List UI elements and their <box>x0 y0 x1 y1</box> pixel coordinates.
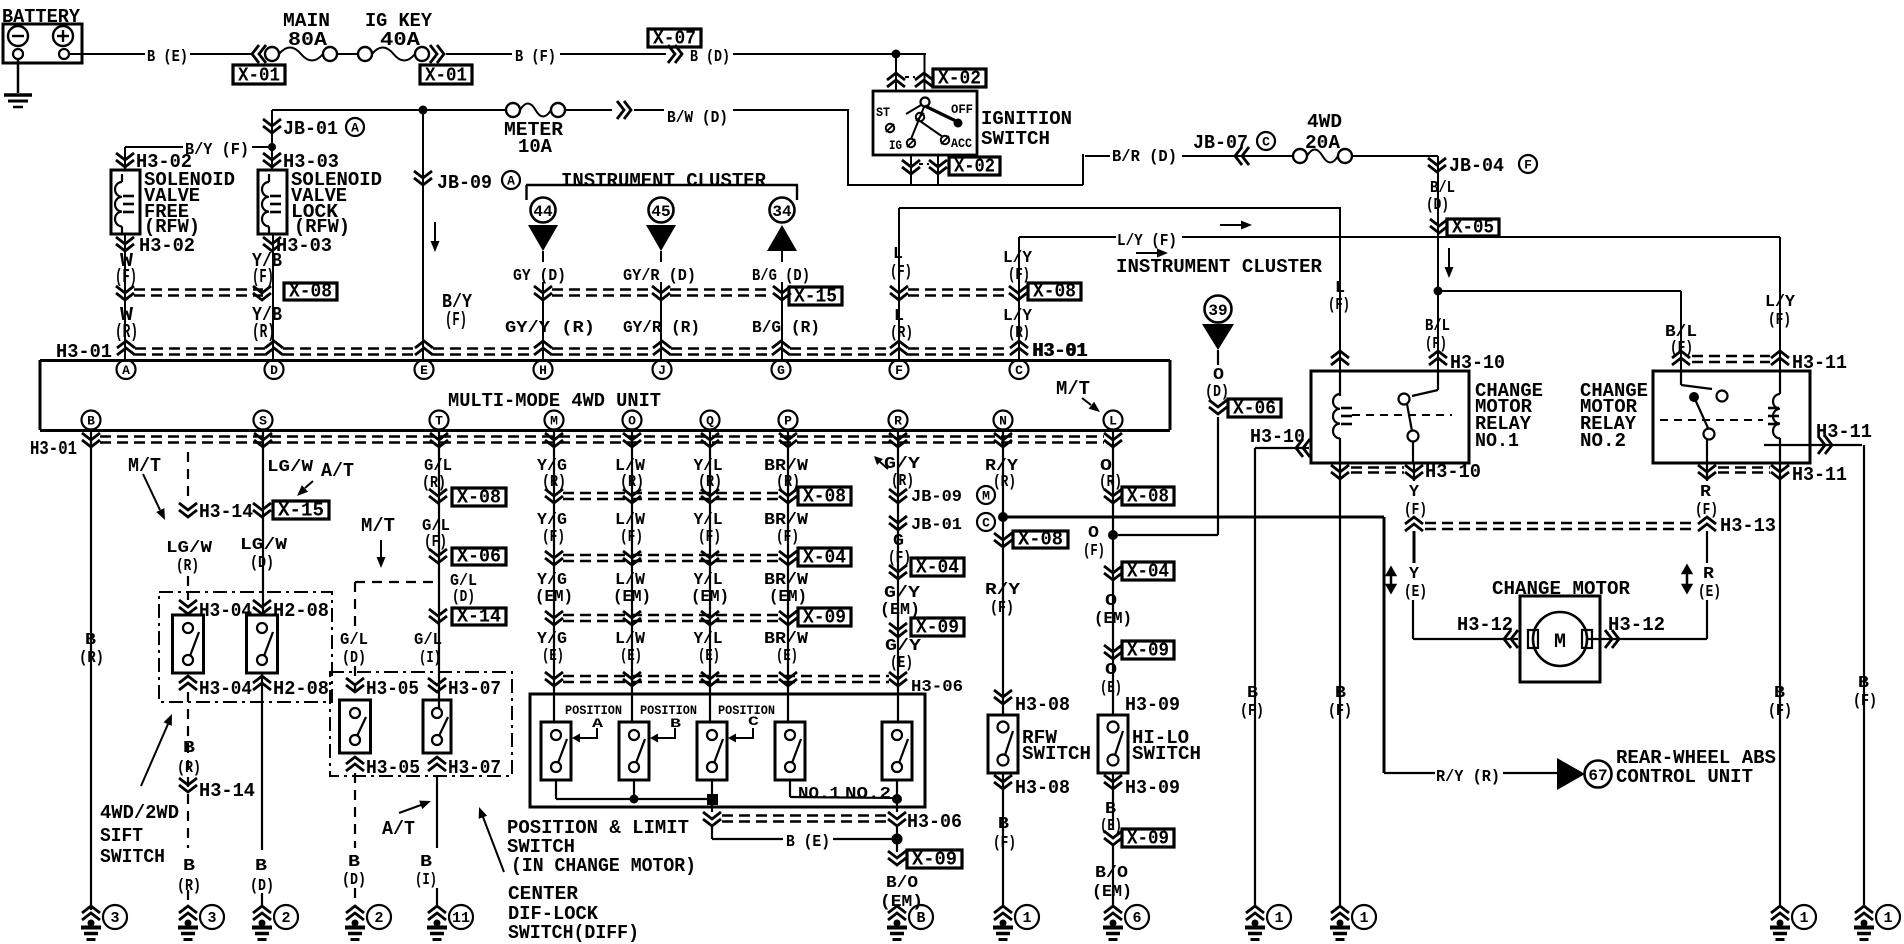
svg-text:B/O: B/O <box>1095 863 1128 882</box>
svg-text:X-08: X-08 <box>289 281 332 303</box>
svg-text:P: P <box>784 414 792 429</box>
svg-text:A/T: A/T <box>321 460 354 482</box>
svg-text:H3-05: H3-05 <box>366 678 419 700</box>
svg-text:J: J <box>658 363 666 378</box>
svg-text:(R): (R) <box>79 648 104 667</box>
svg-text:H3-08: H3-08 <box>1015 777 1070 799</box>
svg-text:H3-04: H3-04 <box>199 600 252 622</box>
svg-text:(R): (R) <box>177 758 201 777</box>
svg-text:C: C <box>982 516 990 531</box>
svg-text:(F): (F) <box>888 548 911 567</box>
svg-text:M: M <box>982 489 990 504</box>
svg-text:(R): (R) <box>698 472 722 491</box>
svg-text:B: B <box>183 738 195 757</box>
svg-text:(D): (D) <box>250 876 274 895</box>
svg-text:GY/Y (R): GY/Y (R) <box>505 318 595 337</box>
svg-text:1: 1 <box>1359 910 1368 927</box>
svg-text:IGNITION: IGNITION <box>981 108 1072 130</box>
svg-text:JB-01: JB-01 <box>911 515 962 534</box>
svg-text:(F): (F) <box>993 833 1016 852</box>
svg-text:O: O <box>1105 660 1117 679</box>
svg-text:H3-01: H3-01 <box>1033 340 1088 362</box>
svg-text:INSTRUMENT CLUSTER: INSTRUMENT CLUSTER <box>1116 256 1323 278</box>
svg-text:1: 1 <box>1799 910 1808 927</box>
svg-text:(D): (D) <box>1205 382 1229 401</box>
svg-text:H2-08: H2-08 <box>273 678 329 700</box>
svg-text:M: M <box>1554 631 1566 654</box>
svg-text:(F): (F) <box>1768 310 1791 329</box>
svg-text:SWITCH: SWITCH <box>981 128 1050 150</box>
svg-text:X-04: X-04 <box>1127 561 1169 583</box>
svg-text:SIFT: SIFT <box>100 825 143 847</box>
svg-text:X-01: X-01 <box>238 65 280 87</box>
svg-text:Y: Y <box>1409 564 1419 583</box>
svg-text:(EM): (EM) <box>769 587 807 606</box>
svg-text:S: S <box>259 414 267 429</box>
svg-text:1: 1 <box>1883 910 1892 927</box>
svg-text:GY/R (R): GY/R (R) <box>623 318 700 337</box>
svg-text:L: L <box>1109 414 1117 429</box>
svg-text:H3-02: H3-02 <box>139 235 195 257</box>
svg-text:R/Y: R/Y <box>985 580 1020 599</box>
svg-text:H3-14: H3-14 <box>199 780 255 802</box>
svg-text:(R): (R) <box>890 323 913 342</box>
svg-text:B: B <box>916 910 925 927</box>
svg-text:(F): (F) <box>990 598 1014 617</box>
svg-text:45: 45 <box>651 203 670 221</box>
svg-text:(F): (F) <box>620 527 643 546</box>
svg-text:(E): (E) <box>1404 582 1427 601</box>
svg-text:20A: 20A <box>1305 132 1341 154</box>
svg-text:(F): (F) <box>890 262 912 281</box>
svg-text:H3-07: H3-07 <box>448 678 501 700</box>
svg-text:SWITCH: SWITCH <box>1022 743 1091 765</box>
svg-text:X-02: X-02 <box>954 156 995 178</box>
svg-text:(F): (F) <box>1328 295 1350 314</box>
svg-text:H3-03: H3-03 <box>276 235 332 257</box>
svg-text:(F): (F) <box>1670 338 1693 357</box>
svg-text:R: R <box>1703 564 1714 583</box>
svg-text:(EM): (EM) <box>691 587 729 606</box>
svg-text:MULTI-MODE 4WD UNIT: MULTI-MODE 4WD UNIT <box>448 390 661 412</box>
svg-text:D: D <box>270 363 278 378</box>
svg-text:6: 6 <box>1132 910 1141 927</box>
svg-text:B (F): B (F) <box>515 47 556 66</box>
svg-text:B: B <box>87 414 95 429</box>
svg-text:(E): (E) <box>620 646 642 665</box>
svg-text:ST: ST <box>876 105 890 120</box>
svg-text:(F): (F) <box>1425 334 1447 353</box>
svg-text:(E): (E) <box>542 646 564 665</box>
svg-text:B: B <box>1774 683 1785 702</box>
svg-text:O: O <box>1088 523 1099 542</box>
svg-text:B/W (D): B/W (D) <box>667 108 728 127</box>
svg-text:M/T: M/T <box>1056 378 1090 400</box>
svg-text:B (E): B (E) <box>786 832 830 851</box>
svg-text:X-02: X-02 <box>938 68 981 90</box>
svg-text:X-08: X-08 <box>1018 529 1063 551</box>
svg-text:(F): (F) <box>1695 500 1718 519</box>
svg-text:L/Y (F): L/Y (F) <box>1117 231 1177 250</box>
svg-text:X-09: X-09 <box>916 617 959 639</box>
svg-text:X-09: X-09 <box>912 849 957 871</box>
svg-text:JB-09: JB-09 <box>911 487 962 506</box>
svg-text:(R): (R) <box>252 321 275 343</box>
svg-text:(F): (F) <box>1328 701 1352 720</box>
svg-text:B/R (D): B/R (D) <box>1112 147 1177 166</box>
svg-text:F: F <box>1524 158 1532 173</box>
svg-text:OFF: OFF <box>951 102 973 117</box>
svg-text:O: O <box>628 414 636 429</box>
svg-text:(EM): (EM) <box>613 587 651 606</box>
svg-text:(D): (D) <box>342 648 366 667</box>
svg-text:B/Y (F): B/Y (F) <box>185 140 249 159</box>
svg-text:Q: Q <box>706 414 714 429</box>
svg-text:GY/R (D): GY/R (D) <box>623 266 696 285</box>
svg-text:H3-11: H3-11 <box>1816 421 1872 443</box>
svg-text:(D): (D) <box>1426 195 1449 214</box>
svg-text:(F): (F) <box>1768 701 1792 720</box>
svg-text:4WD: 4WD <box>1307 111 1342 133</box>
svg-text:JB-01: JB-01 <box>283 118 338 140</box>
svg-text:H3-07: H3-07 <box>448 757 501 779</box>
svg-text:40A: 40A <box>380 29 421 51</box>
svg-text:M/T: M/T <box>128 455 161 477</box>
svg-text:NO.1: NO.1 <box>1475 430 1519 452</box>
svg-text:A: A <box>507 174 515 189</box>
svg-text:SWITCH: SWITCH <box>1132 743 1201 765</box>
svg-text:A: A <box>351 121 359 136</box>
svg-text:L: L <box>893 244 903 263</box>
svg-text:(F): (F) <box>542 527 565 546</box>
svg-text:SWITCH(DIFF): SWITCH(DIFF) <box>508 922 639 944</box>
svg-text:C: C <box>1262 135 1270 150</box>
svg-text:1: 1 <box>1022 910 1031 927</box>
svg-text:X-04: X-04 <box>916 557 959 579</box>
svg-text:(F): (F) <box>252 266 274 288</box>
svg-text:X-06: X-06 <box>1233 398 1276 420</box>
svg-text:(F): (F) <box>1083 541 1105 560</box>
svg-text:A: A <box>122 363 130 378</box>
svg-text:(I): (I) <box>419 648 441 667</box>
svg-text:X-06: X-06 <box>457 546 501 568</box>
svg-text:B: B <box>348 852 360 871</box>
svg-text:NO.1: NO.1 <box>798 784 840 803</box>
svg-text:X-05: X-05 <box>1452 217 1494 239</box>
svg-text:(I): (I) <box>415 870 437 889</box>
svg-text:(EM): (EM) <box>880 600 920 619</box>
svg-text:(R): (R) <box>422 473 446 492</box>
svg-text:H: H <box>539 363 547 378</box>
svg-text:X-15: X-15 <box>794 286 837 308</box>
svg-text:34: 34 <box>772 203 792 221</box>
svg-text:2: 2 <box>374 910 383 927</box>
svg-text:X-08: X-08 <box>1127 486 1169 508</box>
svg-text:LG/W: LG/W <box>267 457 313 476</box>
svg-text:(R): (R) <box>1099 472 1122 491</box>
svg-text:X-09: X-09 <box>1127 828 1169 850</box>
svg-text:B: B <box>255 856 267 875</box>
svg-text:(F): (F) <box>698 527 721 546</box>
svg-text:H3-10: H3-10 <box>1425 461 1481 483</box>
svg-text:B: B <box>1858 673 1869 692</box>
svg-text:H3-01: H3-01 <box>30 438 77 460</box>
svg-text:(F): (F) <box>776 527 799 546</box>
svg-text:JB-09: JB-09 <box>437 172 492 194</box>
svg-text:C: C <box>1015 363 1023 378</box>
svg-text:SWITCH: SWITCH <box>100 846 165 868</box>
svg-text:B: B <box>1335 683 1346 702</box>
svg-text:(R): (R) <box>620 472 644 491</box>
svg-text:H3-09: H3-09 <box>1125 694 1180 716</box>
svg-text:CENTER: CENTER <box>508 883 579 905</box>
svg-text:B (D): B (D) <box>690 47 730 66</box>
svg-text:H3-06: H3-06 <box>907 811 962 833</box>
svg-text:G/L: G/L <box>414 630 442 649</box>
svg-text:(E): (E) <box>698 646 720 665</box>
svg-text:(E): (E) <box>776 646 798 665</box>
svg-text:X-04: X-04 <box>803 547 846 569</box>
svg-text:B: B <box>183 856 195 875</box>
svg-text:CONTROL UNIT: CONTROL UNIT <box>1616 766 1753 788</box>
svg-text:R: R <box>894 414 902 429</box>
svg-text:(R): (R) <box>176 556 199 575</box>
svg-text:(EM): (EM) <box>1094 609 1132 628</box>
svg-text:2: 2 <box>281 910 290 927</box>
svg-text:(D): (D) <box>452 587 475 606</box>
svg-text:(D): (D) <box>250 553 274 572</box>
svg-text:X-09: X-09 <box>1127 640 1169 662</box>
svg-text:(F): (F) <box>424 532 447 551</box>
svg-text:B: B <box>1247 683 1258 702</box>
svg-text:O: O <box>1105 591 1117 610</box>
svg-text:LG/W: LG/W <box>166 538 212 557</box>
svg-text:3: 3 <box>110 910 119 927</box>
svg-text:(F): (F) <box>115 266 137 288</box>
svg-text:44: 44 <box>533 203 553 221</box>
svg-text:(R): (R) <box>993 472 1016 491</box>
svg-text:X-14: X-14 <box>457 606 501 628</box>
svg-text:H3-05: H3-05 <box>366 757 420 779</box>
svg-text:M/T: M/T <box>361 515 395 537</box>
svg-text:R/Y (R): R/Y (R) <box>1436 767 1500 786</box>
svg-text:H3-09: H3-09 <box>1125 777 1180 799</box>
svg-text:(R): (R) <box>542 472 566 491</box>
svg-text:T: T <box>435 414 443 429</box>
svg-text:H3-12: H3-12 <box>1608 614 1665 636</box>
svg-text:G: G <box>777 363 785 378</box>
svg-text:(IN CHANGE MOTOR): (IN CHANGE MOTOR) <box>511 855 696 877</box>
svg-text:39: 39 <box>1208 302 1227 320</box>
svg-text:(F): (F) <box>1853 691 1877 710</box>
svg-text:(EM): (EM) <box>1092 882 1132 901</box>
svg-text:X-08: X-08 <box>457 487 501 509</box>
svg-text:X-08: X-08 <box>1033 281 1076 303</box>
svg-text:H3-14: H3-14 <box>199 501 253 523</box>
svg-text:A/T: A/T <box>382 818 415 840</box>
svg-text:H3-13: H3-13 <box>1720 515 1776 537</box>
svg-text:GY (D): GY (D) <box>513 266 566 285</box>
svg-text:NO.2: NO.2 <box>845 784 891 803</box>
svg-text:(D): (D) <box>342 870 366 889</box>
svg-text:10A: 10A <box>518 136 553 158</box>
svg-text:H3-08: H3-08 <box>1015 694 1070 716</box>
svg-text:(EM): (EM) <box>535 587 573 606</box>
svg-text:(R): (R) <box>177 876 201 895</box>
svg-text:Y: Y <box>1409 482 1419 501</box>
svg-text:(E): (E) <box>890 653 913 672</box>
svg-text:4WD/2WD: 4WD/2WD <box>100 802 179 824</box>
svg-text:B/G (R): B/G (R) <box>752 318 820 337</box>
svg-text:N: N <box>999 414 1007 429</box>
svg-text:(E): (E) <box>1100 678 1122 697</box>
svg-text:G/L: G/L <box>340 630 368 649</box>
svg-text:R: R <box>1700 482 1711 501</box>
svg-text:LG/W: LG/W <box>240 535 287 554</box>
svg-text:(F): (F) <box>445 309 467 331</box>
svg-text:H3-11: H3-11 <box>1792 464 1847 486</box>
svg-text:B/L: B/L <box>1425 316 1450 335</box>
svg-text:B (E): B (E) <box>147 47 188 66</box>
svg-text:1: 1 <box>1274 910 1283 927</box>
svg-text:B: B <box>420 852 432 871</box>
svg-text:11: 11 <box>452 910 470 927</box>
svg-text:POSITION: POSITION <box>718 703 775 718</box>
svg-text:L/Y: L/Y <box>1765 292 1795 311</box>
svg-text:NO.2: NO.2 <box>1580 430 1626 452</box>
svg-text:H3-10: H3-10 <box>1250 426 1305 448</box>
svg-text:67: 67 <box>1588 767 1607 785</box>
svg-text:M: M <box>550 414 558 429</box>
svg-text:JB-07: JB-07 <box>1193 132 1248 154</box>
svg-text:X-09: X-09 <box>803 607 846 629</box>
svg-text:H3-04: H3-04 <box>199 678 252 700</box>
svg-text:X-01: X-01 <box>425 65 467 87</box>
svg-text:3: 3 <box>207 910 216 927</box>
svg-text:(F): (F) <box>1404 500 1427 519</box>
svg-text:X-08: X-08 <box>803 486 846 508</box>
svg-text:IG: IG <box>889 138 902 153</box>
svg-text:INSTRUMENT CLUSTER: INSTRUMENT CLUSTER <box>561 170 767 192</box>
svg-text:(E): (E) <box>1698 582 1721 601</box>
svg-text:JB-04: JB-04 <box>1449 155 1504 177</box>
svg-text:(F): (F) <box>1240 701 1264 720</box>
svg-text:POSITION: POSITION <box>640 703 697 718</box>
svg-text:B/O: B/O <box>886 873 918 892</box>
svg-text:X-15: X-15 <box>278 500 324 522</box>
svg-text:B: B <box>998 814 1009 833</box>
svg-text:C: C <box>748 714 759 729</box>
svg-text:E: E <box>420 363 428 378</box>
svg-text:H3-12: H3-12 <box>1457 614 1513 636</box>
svg-text:H2-08: H2-08 <box>273 600 329 622</box>
svg-text:F: F <box>895 363 903 378</box>
svg-text:B: B <box>85 630 96 649</box>
svg-text:ACC: ACC <box>951 136 972 151</box>
svg-text:80A: 80A <box>288 29 328 51</box>
